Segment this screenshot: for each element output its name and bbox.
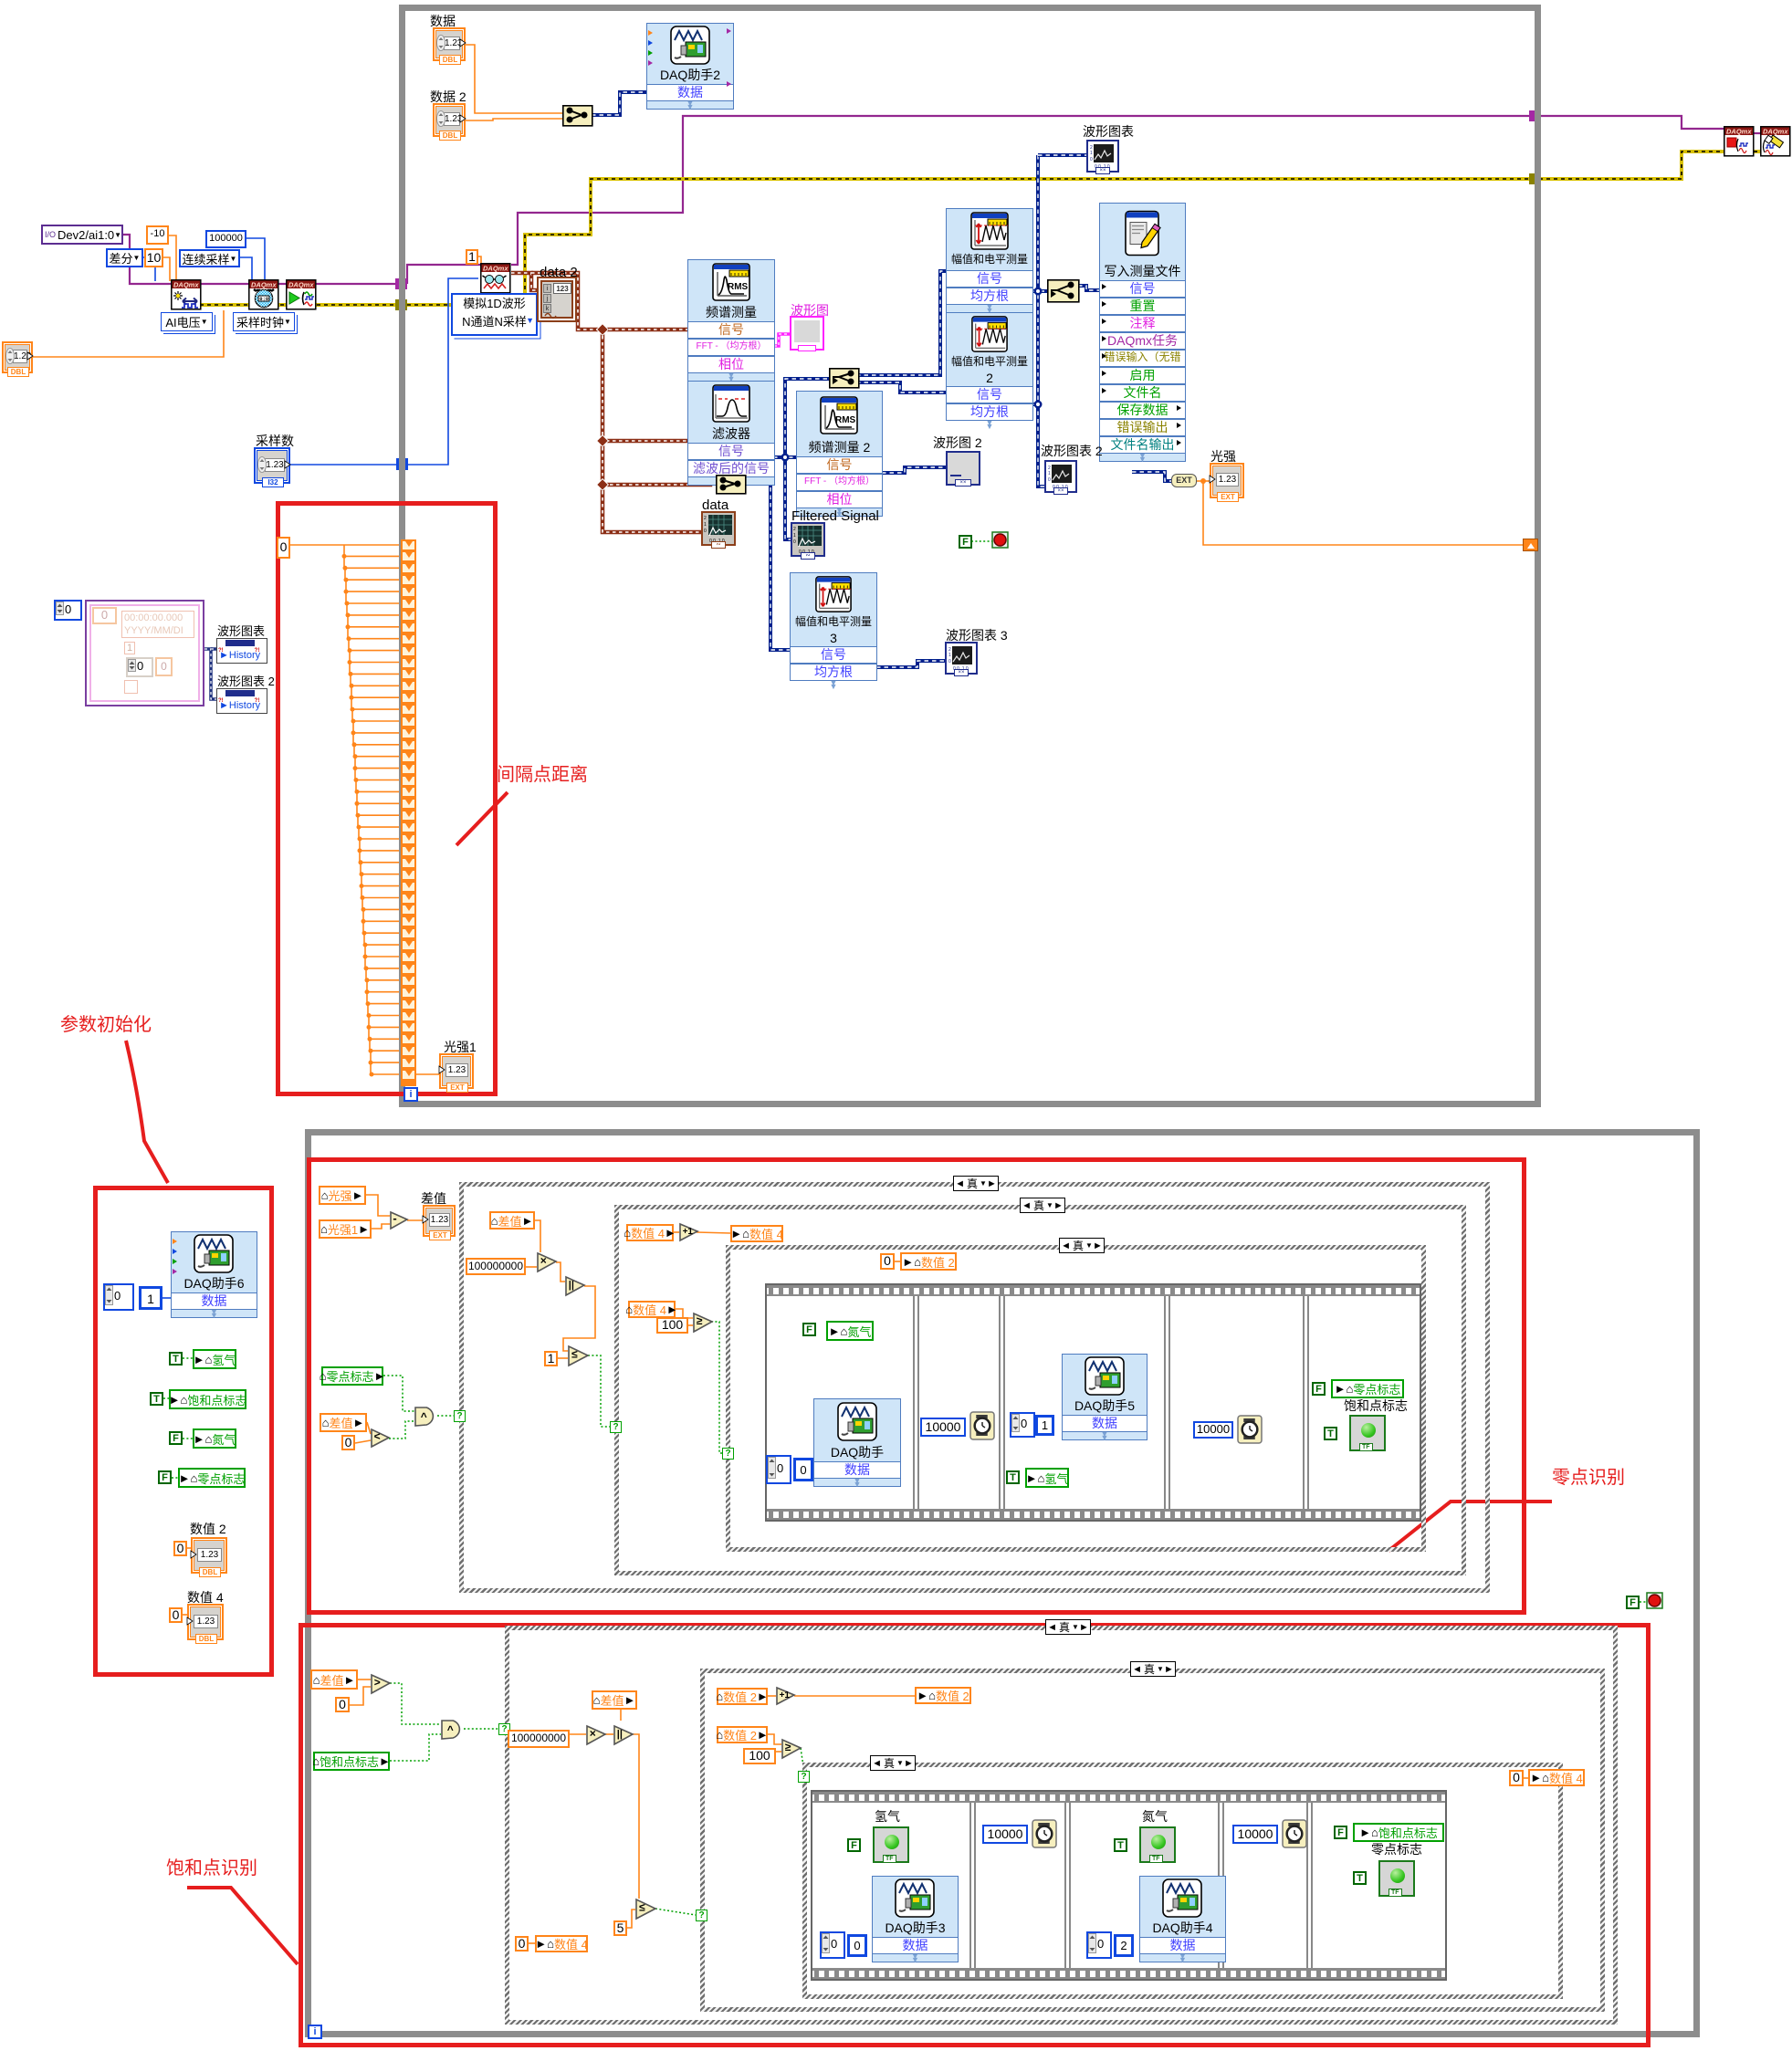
- svg-text:0: 0: [793, 539, 796, 545]
- svg-text:+1: +1: [683, 1227, 694, 1237]
- svg-text:DAQmx: DAQmx: [1763, 128, 1788, 136]
- svg-text:≥: ≥: [785, 1741, 791, 1753]
- svg-text:^: ^: [421, 1410, 427, 1423]
- svg-text:||: ||: [569, 1280, 574, 1291]
- svg-text:≤: ≤: [639, 1901, 645, 1914]
- svg-text:1: 1: [1090, 151, 1093, 156]
- svg-text:≤: ≤: [571, 1348, 578, 1361]
- svg-text:≥: ≥: [697, 1314, 703, 1327]
- svg-text:DAQmx: DAQmx: [251, 281, 277, 289]
- svg-text:1: 1: [704, 522, 707, 528]
- svg-text:DAQmx: DAQmx: [483, 265, 508, 273]
- svg-text:0: 0: [948, 659, 951, 664]
- svg-text:2: 2: [793, 527, 796, 532]
- svg-text:<: <: [374, 1429, 381, 1442]
- svg-text:>: >: [374, 1676, 381, 1689]
- svg-text:0:0: 0:0: [259, 296, 268, 302]
- svg-text:DAQmx: DAQmx: [1726, 128, 1752, 136]
- svg-text:0: 0: [1048, 477, 1051, 483]
- svg-text:^: ^: [447, 1723, 454, 1736]
- svg-text:0: 0: [704, 528, 707, 534]
- svg-text:×: ×: [590, 1727, 596, 1740]
- svg-text:||: ||: [617, 1729, 623, 1740]
- svg-text:1: 1: [793, 533, 796, 539]
- svg-text:-: -: [393, 1211, 396, 1225]
- svg-text:1: 1: [1048, 471, 1051, 476]
- svg-text:1: 1: [948, 653, 951, 658]
- svg-text:0: 0: [1090, 157, 1093, 162]
- svg-text:×: ×: [540, 1254, 547, 1267]
- svg-text:2: 2: [704, 516, 707, 521]
- svg-text:DAQmx: DAQmx: [173, 281, 199, 289]
- svg-text:DAQmx: DAQmx: [288, 281, 314, 289]
- svg-text:+1: +1: [780, 1690, 791, 1700]
